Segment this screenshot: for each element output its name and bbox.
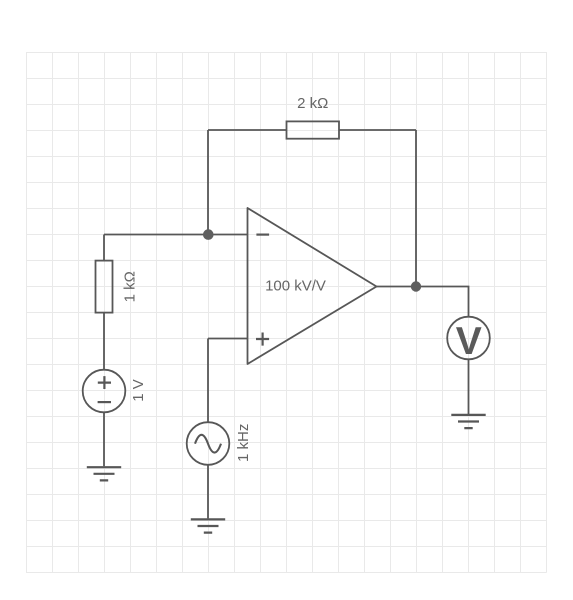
AC source VS circle xyxy=(187,422,230,465)
op-amp non-inverting input plus sign xyxy=(256,333,269,346)
voltage source V1 circle xyxy=(83,370,126,413)
AC source sine wave xyxy=(195,435,221,453)
wire xyxy=(207,465,209,519)
wire xyxy=(207,339,209,423)
ground G2 xyxy=(191,519,225,532)
voltmeter VM circle xyxy=(447,317,490,360)
svg-text:1 kHz: 1 kHz xyxy=(235,424,252,462)
wire xyxy=(208,129,287,131)
node junction dot at inverting input xyxy=(203,229,214,240)
node junction dot at output xyxy=(411,281,421,291)
resistor R1 1 kOhm body xyxy=(96,261,113,313)
wire xyxy=(415,130,417,287)
wire xyxy=(377,287,469,318)
wire xyxy=(339,129,416,131)
op-amp U1 triangle xyxy=(248,208,377,364)
svg-text:100 kV/V: 100 kV/V xyxy=(265,278,326,295)
svg-text:1 V: 1 V xyxy=(130,379,147,402)
wire xyxy=(103,313,105,371)
wire xyxy=(468,359,470,414)
svg-text:V: V xyxy=(456,320,482,363)
resistor R2 2 kOhm body xyxy=(287,121,340,138)
ground G3 xyxy=(451,415,485,428)
wire xyxy=(104,234,248,236)
voltage source V1 minus sign xyxy=(98,401,111,403)
voltage source V1 plus sign xyxy=(98,376,111,389)
wire xyxy=(103,412,105,466)
svg-text:1 kΩ: 1 kΩ xyxy=(122,271,139,302)
wire xyxy=(207,130,209,235)
wire xyxy=(103,235,105,262)
op-amp inverting input minus sign xyxy=(256,234,269,236)
wire xyxy=(208,338,248,340)
svg-text:2 kΩ: 2 kΩ xyxy=(297,95,328,112)
ground G1 xyxy=(87,467,121,480)
